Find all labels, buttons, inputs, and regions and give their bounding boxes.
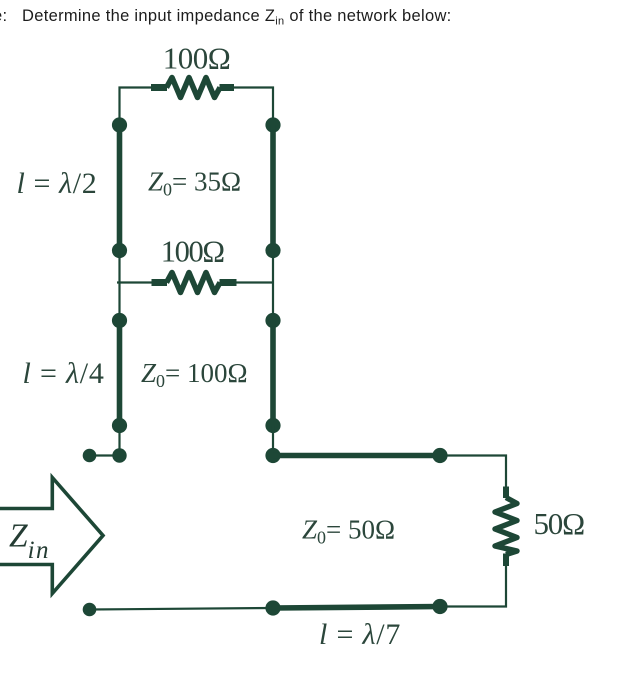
node: input top terminal bbox=[83, 449, 97, 463]
node: main line bottom-right bbox=[432, 599, 447, 614]
node: bottom of λ/4 right bbox=[265, 418, 280, 433]
svg-text:l = λ/2: l = λ/2 bbox=[17, 167, 98, 200]
svg-text:Z0= 50Ω: Z0= 50Ω bbox=[302, 515, 395, 548]
node: stub junction bbox=[112, 448, 126, 462]
wire: load bottom to main line bbox=[440, 566, 506, 607]
wire: top right to load bbox=[440, 456, 506, 488]
wire: input top stub bbox=[90, 454, 120, 456]
transmission line Z0=50 bottom conductor bbox=[273, 607, 440, 609]
node: main line bottom-left bbox=[265, 600, 280, 615]
node: lower-right junction (top of λ/4 line) bbox=[265, 313, 280, 328]
node: bottom of λ/4 left bbox=[112, 418, 127, 433]
resistor R2 100Ω (middle) bbox=[152, 273, 237, 293]
transmission line l=λ/4 left conductor bbox=[117, 321, 123, 426]
node: input bottom terminal bbox=[83, 603, 97, 617]
resistor R1 100Ω (top) bbox=[151, 78, 234, 98]
node: main line top-right bbox=[432, 448, 447, 463]
svg-text:e: Determine the input imped: e: Determine the input impedance Zin of … bbox=[0, 7, 452, 28]
transmission line l=λ/2 left conductor bbox=[117, 125, 123, 251]
wire: R2 row horizontal right bbox=[237, 281, 274, 283]
Zin input arrow bbox=[0, 478, 103, 594]
transmission line Z0=50 top conductor bbox=[273, 453, 440, 459]
wire: top-left frame (from left stub node up and across to R1) bbox=[120, 88, 152, 126]
transmission line l=λ/2 right conductor bbox=[270, 125, 276, 251]
wire: left thin segment through R2 row bbox=[118, 251, 120, 321]
wire: bottom return to input bbox=[90, 608, 274, 610]
wire: right thin segment through R2 row bbox=[272, 251, 274, 321]
resistor R3 50Ω (load) bbox=[495, 487, 517, 567]
wire: right drop to main line bbox=[272, 426, 274, 456]
svg-text:50Ω: 50Ω bbox=[534, 506, 585, 541]
node: main line top-left bbox=[265, 448, 280, 463]
svg-text:Z0= 35Ω: Z0= 35Ω bbox=[148, 167, 241, 200]
node: lower-left junction (top of λ/4 line) bbox=[112, 313, 127, 328]
node: mid-right junction bbox=[265, 243, 280, 258]
wire: R2 row horizontal left bbox=[117, 281, 152, 283]
svg-text:l = λ/4: l = λ/4 bbox=[23, 357, 105, 390]
wire: left drop to main line bbox=[118, 426, 120, 456]
wire: top-right frame (from R1 across and down) bbox=[234, 88, 273, 126]
node: top-left junction bbox=[112, 117, 127, 132]
node: top-right junction bbox=[265, 117, 280, 132]
svg-text:Z0= 100Ω: Z0= 100Ω bbox=[141, 358, 248, 391]
node: mid-left junction bbox=[112, 243, 127, 258]
svg-text:100Ω: 100Ω bbox=[161, 235, 225, 269]
svg-text:100Ω: 100Ω bbox=[163, 40, 231, 75]
svg-text:l = λ/7: l = λ/7 bbox=[319, 618, 401, 651]
transmission line l=λ/4 right conductor bbox=[270, 321, 276, 426]
